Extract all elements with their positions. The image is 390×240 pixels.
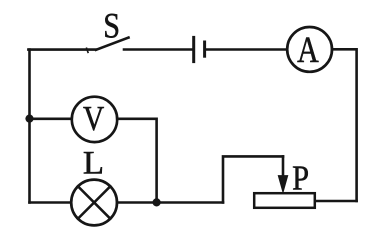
wire: bottom-left corner to lamp xyxy=(30,201,72,204)
svg-text:P: P xyxy=(292,159,309,197)
switch S (open blade + small contact tick) xyxy=(87,38,129,53)
voltmeter V xyxy=(72,97,117,142)
wire: battery to ammeter xyxy=(206,48,287,51)
lamp L (circle with X) xyxy=(71,180,117,226)
wire: wiper step (arrow top, left, down to bottom row) xyxy=(223,156,283,202)
wire: left vertical (top-left corner down to bottom-left corner) xyxy=(28,50,31,203)
svg-text:A: A xyxy=(297,30,319,71)
junction dot (lamp right / voltmeter branch) xyxy=(153,198,161,206)
wire: voltmeter right, to vertical, down to junction dot xyxy=(117,119,156,203)
ammeter A xyxy=(287,27,332,72)
wire: bottom-right horizontal to rheostat right terminal xyxy=(316,200,357,203)
rheostat wiper arrow xyxy=(278,156,287,192)
wire: bottom row from lamp right to step corner xyxy=(117,201,223,204)
battery cell: long plate (left) xyxy=(192,37,195,61)
wire: top-left horizontal to switch left contact xyxy=(28,48,95,51)
junction dot (left vertical / voltmeter branch) xyxy=(25,115,33,123)
battery cell: short plate (right) xyxy=(203,42,206,56)
svg-text:L: L xyxy=(83,145,104,181)
rheostat P (resistor body) xyxy=(254,193,315,208)
svg-text:S: S xyxy=(103,8,120,47)
svg-text:V: V xyxy=(83,98,104,137)
wire: junction to voltmeter xyxy=(30,118,73,121)
wire: ammeter to top-right corner, down right side xyxy=(332,49,357,201)
wire: switch to battery xyxy=(124,48,192,51)
